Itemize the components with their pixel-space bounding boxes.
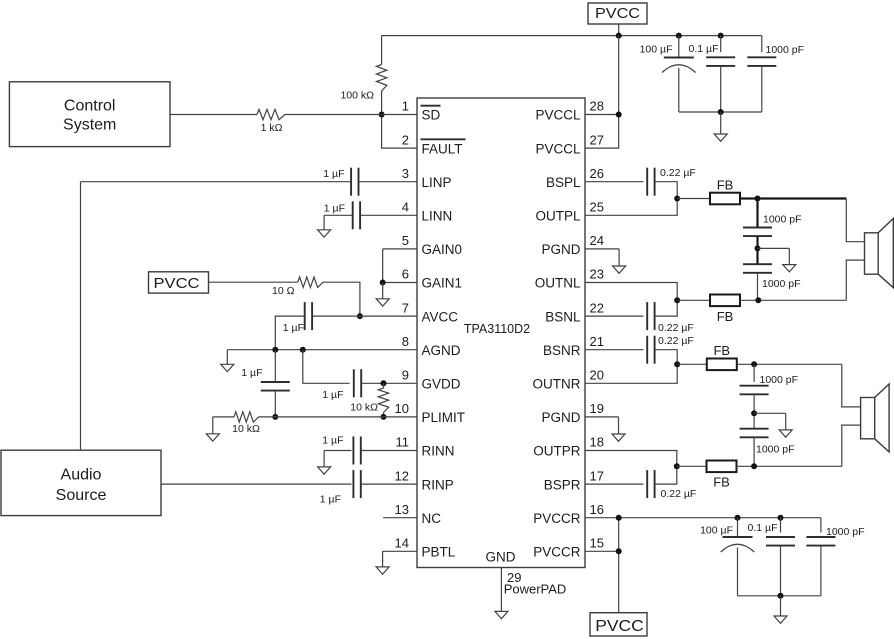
wire pin 16 PVCCR bus [585,517,821,519]
pin name RINN (pin 11) [422,444,455,459]
pin number 9 [402,368,409,383]
junction filter mid node R [751,410,757,416]
capacitor 1 uF (AVCC) [305,302,312,330]
svg-text:14: 14 [395,536,409,551]
wire cap to pin 4 LINN [360,214,417,216]
ferrite bead FB (OUTNR) [707,343,737,370]
junction pin 16 / PVCC drop [616,515,622,521]
junction pin 28 / PVCC drop [616,112,622,118]
value label 1 uF RINP [320,494,341,506]
wire FB to left speaker + (thick) [740,197,846,199]
wire pin 21 BSNR [585,349,644,351]
value label 10 Ohm [272,285,295,297]
pin name PGND (pin 19) [541,410,580,425]
svg-text:PGND: PGND [541,242,580,257]
svg-text:GND: GND [486,550,516,565]
pin number 15 [590,536,604,551]
junction OUTNR node [674,361,680,367]
value label 10 kOhm horizontal [232,423,260,435]
node Audio Source box [1,450,161,515]
wire left speaker + lead [846,199,864,242]
wire right speaker - lead [842,425,861,466]
svg-text:1 µF: 1 µF [241,367,262,379]
svg-text:BSNR: BSNR [543,343,581,358]
capacitor 1 uF (RINN) [353,437,360,465]
capacitor 1 uF (PLIMIT filter, vertical) [274,350,276,382]
capacitor 1000 pF (OUTNR) [740,386,769,395]
wire bottom decoupling ground bus [738,595,821,597]
wire bus to 0.1uF bottom [780,518,782,533]
svg-text:7: 7 [402,300,409,315]
wire FB to right speaker - [737,465,842,467]
ground (PowerPAD) [495,611,508,618]
value label 1 uF LINN [324,203,345,215]
capacitor 1 uF (RINP) [353,470,360,498]
junction PLIMIT / 10k [381,414,387,420]
label PowerPAD [504,582,567,597]
wire FB to left speaker - [740,299,846,301]
junction PLIMIT / 1uF [272,414,278,420]
svg-text:PGND: PGND [541,410,580,425]
svg-text:1 µF: 1 µF [322,389,343,401]
ground (bottom decoupling) [774,596,787,624]
capacitor 100 uF (top, polarized) [662,58,696,73]
svg-text:1 µF: 1 µF [320,494,341,506]
pin name PVCCR (pin 16) [533,511,581,526]
value label 1 uF AVCC [283,322,304,334]
svg-text:100 µF: 100 µF [700,525,733,537]
svg-text:28: 28 [590,99,604,114]
ground (PGND 24) [613,249,626,273]
svg-text:1 µF: 1 µF [283,322,304,334]
pin name PLIMIT (pin 10) [422,410,466,425]
ferrite bead FB (OUTPR) [707,461,737,490]
pin name GAIN0 (pin 5) [422,242,463,257]
capacitor 1 uF (GVDD) [354,369,361,397]
svg-text:1000 pF: 1000 pF [760,374,799,386]
pin number 7 [402,300,409,315]
svg-text:20: 20 [590,368,604,383]
svg-text:1000 pF: 1000 pF [766,44,805,56]
wire pin 10 PLIMIT [259,416,417,418]
wire cap to pin 12 RINP [361,483,417,485]
svg-text:10: 10 [395,401,409,416]
wire pin 24 PGND [585,248,619,250]
pin number 23 [590,267,604,282]
wire audio LINP line [81,181,352,183]
value label 1000 pF [766,44,805,56]
wire AVCC node to 1uF cap [312,315,360,317]
value label 1 uF PLIMIT [241,367,262,379]
wire OUTNR node to FB [677,363,707,365]
svg-text:Source: Source [56,487,107,504]
svg-text:5: 5 [402,233,409,248]
svg-text:100 kΩ: 100 kΩ [340,90,374,102]
junction AGND / AVCC cap [272,347,278,353]
capacitor 100 uF (bottom, polarized) [721,537,755,552]
value label 1000 pF OUTNL [762,278,801,290]
ferrite bead FB (OUTPL) [710,178,740,205]
svg-text:1 kΩ: 1 kΩ [261,122,283,134]
pin name BSPL (pin 26) [546,175,581,190]
svg-text:16: 16 [590,502,604,517]
op-amp U1 TPA3110D2 IC body [417,98,585,568]
wire OUTPR node to FB [677,465,707,467]
pin name BSPR (pin 17) [544,477,581,492]
value label 0.22 uF BSNR [658,335,694,347]
wire PVCC drop to pin 27 PVCCL [585,36,619,149]
pin number 17 [590,468,604,483]
pin number 10 [395,401,409,416]
svg-text:4: 4 [402,200,409,215]
pin name OUTPR (pin 18) [533,444,581,459]
wire top decoupling ground bus [679,111,762,113]
svg-text:21: 21 [590,334,604,349]
pin name RINP (pin 12) [422,477,454,492]
pin number 26 [590,166,604,181]
wire FB to right speaker + [737,363,842,365]
resistor R 10 kOhm (GVDD-PLIMIT) [378,383,388,417]
svg-text:1000 pF: 1000 pF [756,444,795,456]
wire BSNR cap to node [655,350,678,365]
svg-text:PVCC: PVCC [595,618,644,635]
pin name NC (pin 13) [422,511,442,526]
wire 10 ohm to AVCC node [323,282,360,316]
pin name AGND (pin 8) [422,343,461,358]
wire pin 19 PGND [585,416,619,418]
pin name PBTL (pin 14) [422,545,456,560]
wire bus to 0.1uF [720,36,722,53]
wire right speaker + lead [842,364,861,407]
junction pin 1 / pull-up [379,112,385,118]
svg-text:AVCC: AVCC [422,309,459,324]
wire pin 28 PVCCL [585,114,619,116]
pin name PVCCL (pin 28) [535,108,581,123]
pin number 18 [590,435,604,450]
junction OUTNR filter [751,361,757,367]
wire filter mid node (thick) [756,236,758,264]
pin number 19 [590,401,604,416]
ground (PGND 19) [612,417,625,441]
pin number 5 [402,233,409,248]
junction bottom ground bus [778,593,784,599]
wire GND PowerPAD stem [500,568,502,612]
pin name PGND (pin 24) [541,242,580,257]
svg-text:NC: NC [422,511,442,526]
wire PVCCR to bottom PVCC box [618,518,620,613]
wire cap to pin 11 RINN [361,450,417,452]
pin number 12 [395,468,409,483]
wire Audio Source to LINP riser [80,182,82,451]
wire BSPL cap to node [655,182,678,199]
wire OUTPL node to FB [677,198,710,200]
svg-text:1 µF: 1 µF [324,203,345,215]
svg-text:LINN: LINN [422,209,453,224]
pin number 28 [590,99,604,114]
resistor R 10 kOhm (PLIMIT to ground) [213,412,259,422]
value label 100 kOhm [340,90,374,102]
wire BSNL cap to node [655,300,678,316]
junction OUTNL filter [755,297,761,303]
value label 1000 pF bottom [826,526,865,538]
ground (GAIN pins) [376,283,389,307]
svg-text:11: 11 [396,435,410,450]
svg-text:24: 24 [590,233,604,248]
svg-text:PVCCL: PVCCL [535,108,581,123]
svg-text:Audio: Audio [61,467,102,484]
svg-text:SD: SD [422,108,441,123]
label PVCC bottom [595,618,644,635]
junction bus / 100uF cap [676,33,682,39]
svg-text:0.1 µF: 0.1 µF [748,522,778,534]
pin number 6 [402,267,409,282]
value label 0.22 uF BSPL [660,167,696,179]
capacitor 1 uF plates (PLIMIT filter) [261,382,290,391]
capacitor 0.22 uF (BSPL) [647,168,654,196]
wire R filter mid [753,394,755,428]
svg-text:TPA3110D2: TPA3110D2 [464,322,530,336]
wire 1k resistor to pin 1 SD [285,114,417,116]
pin number 20 [590,368,604,383]
value label 100 uF [640,44,673,56]
svg-text:FAULT: FAULT [422,141,463,156]
pin name GVDD (pin 9) [422,377,461,392]
svg-text:17: 17 [590,468,604,483]
svg-text:GAIN1: GAIN1 [422,276,463,291]
junction bus / 0.1uF cap [718,33,724,39]
wire PVCC box to top bus [618,24,620,36]
ground (L filter mid) [783,248,796,272]
wire bus to 1000pF [761,36,763,53]
junction GVDD / 10k [381,380,387,386]
wire cap to pin 3 LINP [359,181,418,183]
pin number 1 [402,99,409,114]
pin number 21 [590,334,604,349]
svg-text:9: 9 [402,368,409,383]
wire filter chain lower [757,273,759,301]
pin number 14 [395,536,409,551]
value label 1000 pF OUTPR [756,444,795,456]
wire bus to 1000pF bottom [820,518,822,533]
node PVCC (AVCC supply box) [149,272,209,293]
svg-text:100 µF: 100 µF [640,44,673,56]
value label 1000 pF OUTNR [760,374,799,386]
pin name LINN (pin 4) [422,209,453,224]
pin number 2 [402,132,409,147]
junction OUTPR node [674,463,680,469]
svg-text:Control: Control [64,98,116,115]
capacitor 0.22 uF (BSPR) [647,470,654,498]
wire top PVCC bus [382,35,762,37]
capacitor 1000 pF (OUTPR) [740,429,769,438]
value label 0.22 uF BSNL [658,322,694,334]
value label 0.22 uF BSPR [661,488,697,500]
wire pin 13 NC stub [383,517,417,519]
pin name OUTNL (pin 23) [535,276,581,291]
pin number 25 [590,200,604,215]
junction ground bus [718,109,724,115]
capacitor 1 uF (LINP) [351,168,358,196]
wire bus to 100uF bottom [737,518,739,537]
svg-text:RINP: RINP [422,477,454,492]
pin name OUTNR (pin 20) [533,377,581,392]
wire SD/FAULT pull-up to pin 2 [382,115,417,149]
capacitor 0.22 uF (BSNR) [647,336,654,364]
ground (RINN) [318,451,331,475]
wire pin 14 PBTL [383,550,417,552]
wire GAIN0 to GAIN1 [383,249,417,283]
svg-text:BSPR: BSPR [544,477,581,492]
pin number 16 [590,502,604,517]
pin number 27 [590,132,604,147]
svg-text:8: 8 [402,334,409,349]
ground (PLIMIT) [206,417,219,441]
pin name FAULT (pin 2) [421,139,466,156]
value label 10 kOhm vertical [350,402,378,414]
wire R mid node to ground [754,412,786,414]
node PVCC (bottom supply box) [590,613,647,636]
pin number 3 [402,166,409,181]
svg-text:6: 6 [402,267,409,282]
value label 1 kOhm [261,122,283,134]
resistor R 10 Ohm [298,277,323,287]
pin number 11 [396,435,410,450]
speaker left [865,219,894,288]
capacitor 0.22 uF (BSNL) [647,302,654,330]
pin name AVCC (pin 7) [422,309,459,324]
resistor R 1 kOhm [257,109,285,119]
node Control System box [9,82,170,147]
svg-text:0.1 µF: 0.1 µF [689,43,719,55]
pin number 22 [590,300,604,315]
wire R filter chain upper [753,364,755,382]
wire Control System to 1k resistor [170,114,257,116]
svg-text:1000 pF: 1000 pF [826,526,865,538]
wire pin 26 BSPL [585,181,644,183]
pin name GAIN1 (pin 6) [422,276,463,291]
svg-text:FB: FB [713,475,730,490]
svg-text:AGND: AGND [422,343,461,358]
svg-text:LINP: LINP [422,175,452,190]
svg-text:PowerPAD: PowerPAD [504,582,567,597]
svg-text:OUTPL: OUTPL [535,209,581,224]
svg-text:12: 12 [395,468,409,483]
svg-text:10 kΩ: 10 kΩ [350,402,378,414]
svg-text:25: 25 [590,200,604,215]
pin number 13 [395,502,409,517]
svg-text:26: 26 [590,166,604,181]
junction OUTPR filter [751,463,757,469]
wire pin 17 BSPR [585,483,644,485]
wire pin 5 GAIN0 stub [383,248,417,250]
wire RINN cap left [324,450,351,452]
junction AGND / GVDD cap [300,347,306,353]
capacitor 1 uF (LINN) [353,201,360,229]
wire Audio Source to RINP cap [161,483,352,485]
svg-text:22: 22 [590,300,604,315]
svg-text:OUTPR: OUTPR [533,444,581,459]
svg-text:PVCC: PVCC [154,275,200,292]
wire pin 22 BSNL [585,315,644,317]
svg-text:PLIMIT: PLIMIT [422,410,466,425]
capacitor 0.1 uF (top) [706,57,735,66]
svg-text:0.22 µF: 0.22 µF [658,322,694,334]
svg-text:PBTL: PBTL [422,545,456,560]
wire pin 25 OUTPL to node [585,199,677,216]
svg-text:FB: FB [717,309,734,324]
capacitor 1000 pF (bottom) [806,537,835,546]
svg-text:1 µF: 1 µF [322,435,343,447]
value label 1 uF GVDD [322,389,343,401]
ground (AGND) [221,350,234,372]
wire pin 23 OUTNL to node [585,283,677,301]
svg-text:1000 pF: 1000 pF [762,278,801,290]
svg-text:15: 15 [590,536,604,551]
svg-text:System: System [63,117,116,134]
svg-text:19: 19 [590,401,604,416]
wire AGND to GVDD cap [303,350,350,384]
svg-text:1 µF: 1 µF [323,168,344,180]
wire pin 20 OUTNR to node [585,364,677,383]
junction filter mid node L [755,245,761,251]
value label 0.1 uF [689,43,719,55]
svg-text:PVCCL: PVCCL [535,141,581,156]
node PVCC (top supply box) [588,3,647,24]
label PVCC left [154,275,200,292]
ground (PBTL) [376,551,389,574]
junction GAIN1 / ground [380,280,386,286]
ground (R filter mid) [779,413,792,437]
wire OUTNL node to FB [677,299,710,301]
pin name SD (pin 1) [421,106,441,123]
svg-text:13: 13 [395,502,409,517]
svg-text:0.22 µF: 0.22 µF [658,335,694,347]
ground (top decoupling) [714,112,727,141]
pin name LINP (pin 3) [422,175,452,190]
ferrite bead FB (OUTNL) [710,295,740,325]
svg-text:1000 pF: 1000 pF [763,214,802,226]
ground (LINN) [318,215,331,237]
wire mid node to ground [758,247,790,249]
pin number 29 [507,570,521,585]
wire pin 8 AGND [227,349,417,351]
svg-text:BSNL: BSNL [545,309,581,324]
junction bus / 0.1uF bottom [778,515,784,521]
svg-text:0.22 µF: 0.22 µF [660,167,696,179]
svg-text:10 Ω: 10 Ω [272,285,295,297]
svg-text:PVCCR: PVCCR [533,545,581,560]
wire filter cap chain upper (thick) [756,199,758,228]
svg-text:GVDD: GVDD [422,377,461,392]
junction AVCC node [357,313,363,319]
junction PVCC bus / drop [616,33,622,39]
value label 1000 pF OUTPL [763,214,802,226]
pin name BSNR (pin 21) [543,343,581,358]
svg-text:GAIN0: GAIN0 [422,242,463,257]
svg-text:1: 1 [402,99,409,114]
svg-text:PVCC: PVCC [595,5,640,22]
value label 100 uF bottom [700,525,733,537]
pin name BSNL (pin 22) [545,309,581,324]
value label 0.1 uF bottom [748,522,778,534]
svg-text:PVCCR: PVCCR [533,511,581,526]
pin number 4 [402,200,409,215]
pin number 8 [402,334,409,349]
svg-text:23: 23 [590,267,604,282]
value label 1 uF RINN [322,435,343,447]
svg-text:BSPL: BSPL [546,175,581,190]
junction bus / 100uF bottom [735,515,741,521]
